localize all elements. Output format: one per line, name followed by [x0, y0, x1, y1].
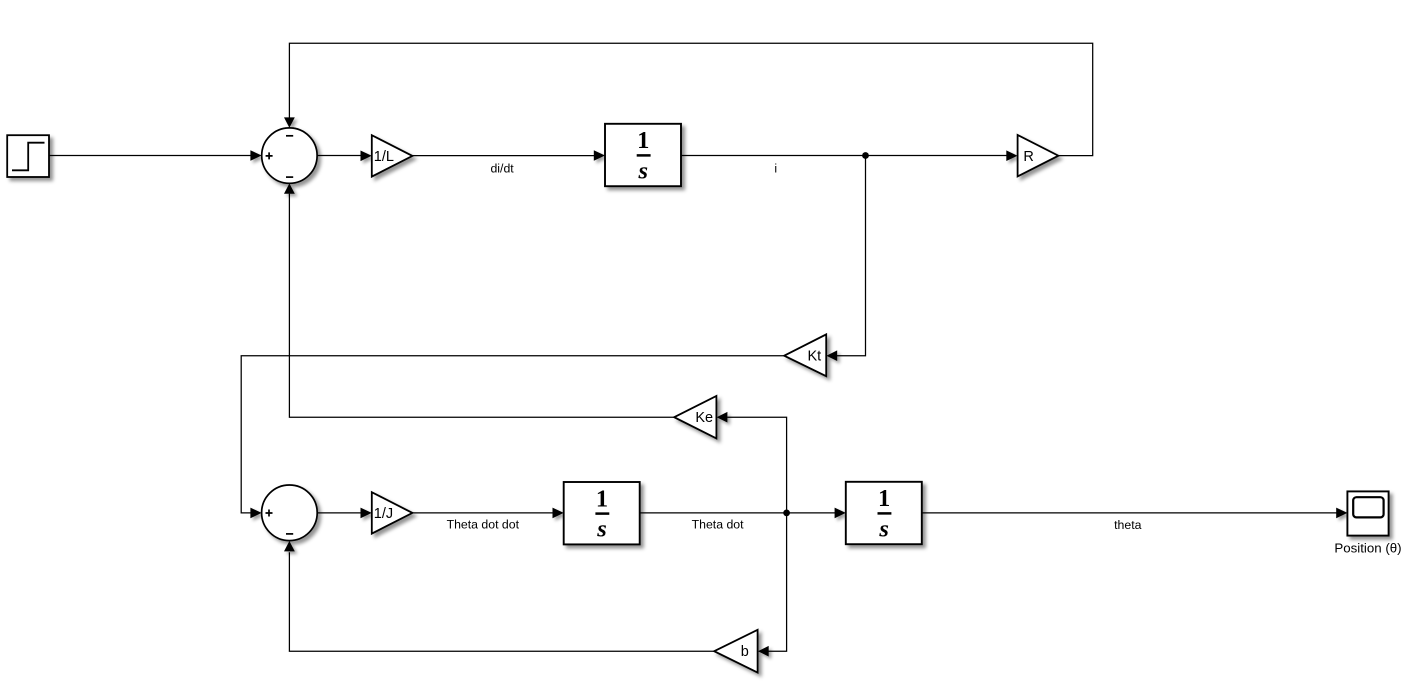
svg-text:1/J: 1/J [374, 506, 393, 522]
svg-text:1: 1 [878, 485, 890, 512]
svg-text:i: i [774, 161, 777, 175]
svg-text:s: s [596, 516, 607, 543]
svg-text:Ke: Ke [695, 410, 713, 426]
svg-text:1: 1 [596, 485, 608, 512]
svg-text:Theta dot dot: Theta dot dot [447, 518, 520, 532]
svg-text:di/dt: di/dt [490, 161, 514, 175]
svg-text:1/L: 1/L [374, 149, 394, 165]
svg-text:1: 1 [637, 127, 649, 154]
svg-text:Kt: Kt [807, 349, 821, 365]
svg-text:theta: theta [1114, 518, 1142, 532]
svg-text:Theta dot: Theta dot [692, 518, 745, 532]
svg-text:Position (θ): Position (θ) [1334, 541, 1401, 556]
svg-text:s: s [878, 515, 889, 542]
svg-text:b: b [741, 644, 749, 660]
svg-text:R: R [1023, 149, 1033, 165]
svg-text:s: s [638, 157, 649, 184]
